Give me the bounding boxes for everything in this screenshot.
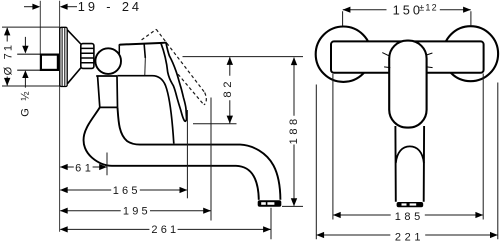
handle left end edge xyxy=(118,46,120,54)
dimension 261 xyxy=(60,208,271,240)
svg-text:261: 261 xyxy=(151,224,179,236)
body shoulder line xyxy=(96,76,174,144)
dimension G1/2 xyxy=(22,37,28,88)
svg-text:221: 221 xyxy=(395,231,424,243)
spout silhouette arch (front view) xyxy=(396,146,424,163)
escutcheon circle left (front view) xyxy=(316,27,371,82)
dimension 221 xyxy=(316,83,498,240)
spout holder trapezoid xyxy=(98,76,118,107)
dimension 19-24 xyxy=(24,4,77,10)
svg-text:165: 165 xyxy=(113,185,141,197)
svg-text:185: 185 xyxy=(395,211,424,223)
escutcheon cone xyxy=(67,30,80,84)
lever blade (closed position) xyxy=(161,43,187,122)
dimension 150 +-12 xyxy=(343,7,471,26)
svg-text:19 - 24: 19 - 24 xyxy=(78,0,142,14)
dimension 188 xyxy=(282,57,303,206)
lever open position dashed xyxy=(142,29,207,104)
handle seam thin continuation xyxy=(144,58,147,76)
S-union square block xyxy=(41,55,58,70)
dimension 185 xyxy=(333,74,483,220)
spout outer edge xyxy=(84,107,259,199)
svg-text:Ø 71: Ø 71 xyxy=(3,43,15,76)
spout inner edge xyxy=(118,107,281,199)
aerator cap (side view) xyxy=(258,200,282,207)
capsule seam ticks xyxy=(382,53,432,68)
dimension 82 xyxy=(183,57,304,124)
svg-text:±12: ±12 xyxy=(419,3,438,13)
svg-text:195: 195 xyxy=(123,205,151,217)
G1/2 pipe stub xyxy=(17,54,40,70)
adjuster nut with ribs xyxy=(81,44,94,69)
dimension 195 xyxy=(60,98,211,221)
extension line 19-24 left xyxy=(39,1,41,54)
cartridge housing circle (side view) xyxy=(95,48,121,74)
svg-text:61: 61 xyxy=(75,162,94,174)
body bar (front view) xyxy=(331,41,484,72)
wall extension line (side view, common reference) xyxy=(59,1,61,232)
dimension 61 xyxy=(60,153,107,176)
handle seam tick xyxy=(144,44,145,58)
dimension 165 xyxy=(60,110,187,198)
lever capsule (front view) xyxy=(389,41,426,128)
escutcheon circle right (front view) xyxy=(443,26,498,81)
svg-text:82: 82 xyxy=(222,78,234,98)
dimension O71 xyxy=(2,27,60,86)
svg-text:G ½: G ½ xyxy=(20,89,32,116)
tube below capsule (front view) xyxy=(395,126,424,202)
escutcheon plate inner lines xyxy=(62,28,65,87)
aerator cap (front view) xyxy=(397,202,424,207)
handle top edge xyxy=(119,43,166,46)
escutcheon wall plate (side view) xyxy=(60,27,67,86)
svg-text:188: 188 xyxy=(288,115,300,144)
